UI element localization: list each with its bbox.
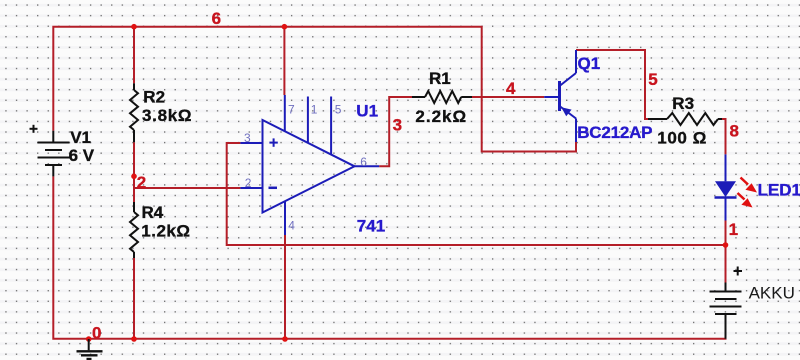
svg-text:3: 3 — [393, 116, 402, 135]
svg-text:100 Ω: 100 Ω — [657, 129, 707, 148]
svg-text:4: 4 — [506, 79, 516, 98]
svg-text:R2: R2 — [143, 88, 165, 107]
svg-text:6: 6 — [212, 9, 221, 28]
svg-text:Q1: Q1 — [578, 54, 601, 73]
svg-text:6: 6 — [360, 155, 367, 169]
svg-text:U1: U1 — [356, 102, 378, 121]
svg-text:R3: R3 — [672, 94, 694, 113]
svg-text:2: 2 — [137, 173, 146, 192]
svg-text:BC212AP: BC212AP — [577, 123, 652, 142]
svg-text:5: 5 — [335, 102, 342, 116]
svg-text:4: 4 — [288, 218, 295, 232]
svg-text:6 V: 6 V — [69, 146, 95, 165]
svg-text:R4: R4 — [142, 203, 164, 222]
svg-text:5: 5 — [648, 70, 657, 89]
svg-text:7: 7 — [288, 102, 295, 116]
svg-text:8: 8 — [730, 122, 739, 141]
svg-text:0: 0 — [92, 324, 101, 343]
svg-text:2.2kΩ: 2.2kΩ — [415, 107, 467, 126]
svg-text:1: 1 — [729, 220, 738, 239]
svg-text:2: 2 — [245, 176, 252, 190]
svg-text:3: 3 — [244, 131, 251, 145]
svg-text:741: 741 — [357, 216, 385, 235]
svg-text:1.2kΩ: 1.2kΩ — [141, 221, 190, 240]
svg-text:AKKU: AKKU — [749, 283, 795, 302]
svg-text:1: 1 — [311, 102, 318, 116]
svg-text:R1: R1 — [429, 69, 451, 88]
svg-text:V1: V1 — [70, 128, 91, 147]
svg-text:3.8kΩ: 3.8kΩ — [142, 106, 192, 125]
svg-text:LED1: LED1 — [758, 180, 800, 199]
